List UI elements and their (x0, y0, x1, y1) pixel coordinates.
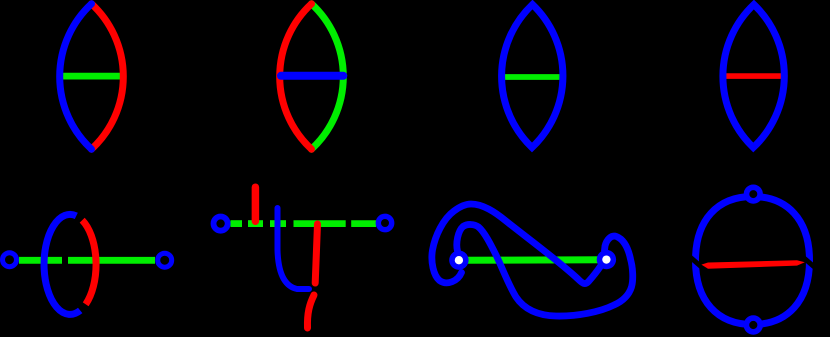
blue ring vertex bottom (746, 318, 760, 332)
green edge segment a (19, 257, 62, 264)
theta graph 2 (280, 4, 344, 149)
blue middle edge (281, 72, 343, 80)
white dot left (455, 256, 463, 264)
theta graph 3 (501, 5, 564, 148)
green middle edge (60, 73, 124, 80)
blue disc vertex left (449, 251, 468, 270)
red vertical segment (252, 187, 260, 221)
blue lens outline (723, 5, 784, 148)
theta graph 1 (top-left) (60, 4, 124, 149)
diagram 6 (bottom second) (214, 187, 392, 328)
blue ring vertex right (378, 216, 391, 229)
diagram 8 (bottom right) (690, 187, 816, 332)
green middle edge (501, 74, 564, 80)
green dashed edge d4 (294, 220, 346, 227)
blue oval loop (696, 197, 810, 325)
blue strand under the bottom (457, 224, 633, 316)
blue ring vertex left (3, 253, 17, 267)
theta graph 4 (722, 5, 786, 148)
green right arc (312, 4, 344, 149)
red right loop arc (82, 220, 96, 304)
blue left arc (60, 4, 92, 149)
handcuff diagram 7 (bottom third) (432, 204, 633, 316)
blue ring vertex top (747, 187, 761, 201)
blue disc vertex right (597, 250, 616, 269)
green dashed edge d1 (231, 220, 243, 227)
black cut left (690, 257, 705, 270)
red strand lower part (307, 295, 314, 328)
red strand upper part (315, 224, 317, 283)
blue lens outline (502, 5, 563, 148)
blue left loop arc (44, 214, 80, 314)
green edge (459, 256, 606, 264)
blue L-shaped strand (278, 208, 310, 289)
blue ring vertex left (214, 217, 228, 231)
green dashed edge d3 (270, 220, 286, 227)
green dashed edge d5 (351, 220, 376, 227)
blue strand over the top (432, 204, 601, 284)
red right arc (92, 4, 124, 149)
handcuff diagram 5 (bottom-left) (3, 214, 172, 314)
red left arc (280, 4, 312, 149)
green dashed edge d2 (248, 220, 263, 227)
black cut right (801, 255, 816, 268)
red edge (tapered) (701, 260, 804, 269)
blue ring vertex right (158, 253, 172, 267)
green edge segment b (68, 257, 155, 264)
white dot right (602, 255, 610, 263)
red middle edge (722, 73, 786, 79)
